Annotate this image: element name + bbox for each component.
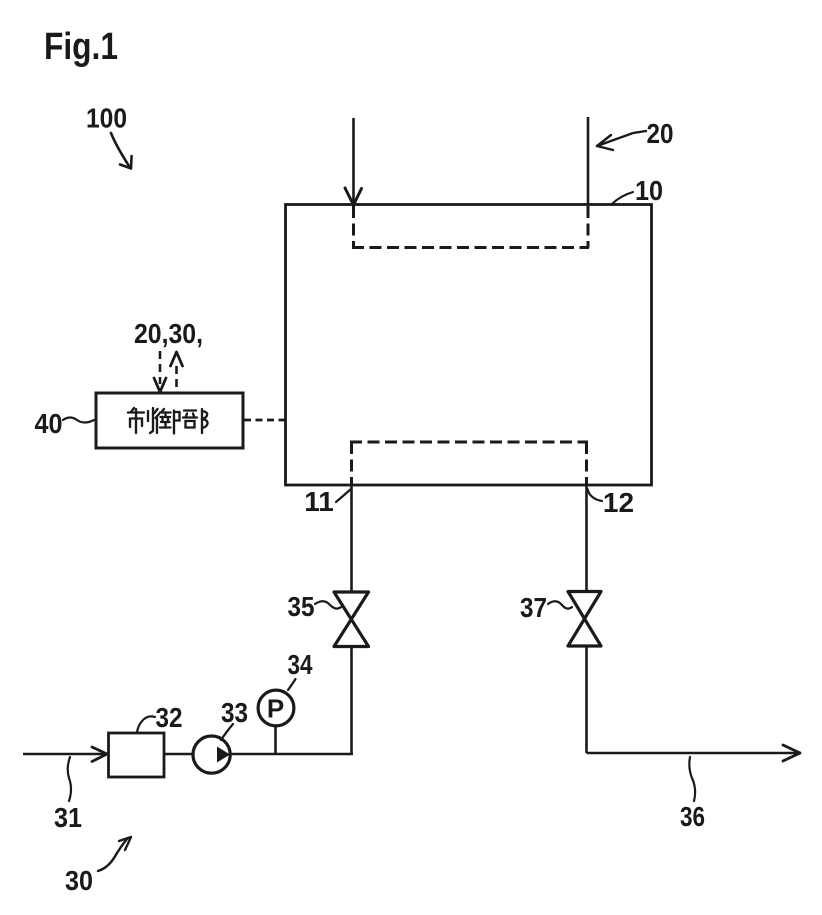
left riser pipe below valve bbox=[350, 647, 353, 754]
svg-text:100: 100 bbox=[86, 103, 127, 134]
svg-text:20,30,: 20,30, bbox=[134, 318, 203, 349]
leader for 35 bbox=[315, 601, 341, 608]
svg-text:30: 30 bbox=[65, 865, 93, 896]
pipe 20 top-right bbox=[587, 117, 590, 205]
svg-text:20: 20 bbox=[647, 118, 674, 149]
right downcomer pipe 12 bbox=[585, 485, 588, 592]
left riser pipe 11 bbox=[350, 485, 353, 592]
svg-text:P: P bbox=[267, 694, 284, 724]
leader for 37 bbox=[548, 601, 572, 608]
svg-text:12: 12 bbox=[603, 487, 634, 518]
leader tilde for 40 bbox=[63, 418, 94, 423]
controller text 制御部 (drawn kanji) bbox=[128, 408, 208, 434]
svg-text:33: 33 bbox=[221, 697, 248, 728]
leader for 34 bbox=[288, 679, 296, 690]
inlet line 31 bbox=[23, 753, 106, 756]
leader for 31 bbox=[68, 757, 71, 801]
制 bbox=[128, 408, 153, 433]
svg-text:Fig.1: Fig.1 bbox=[44, 26, 118, 68]
heat exchanger bottom dashed passage bbox=[350, 442, 588, 484]
svg-text:35: 35 bbox=[288, 591, 315, 622]
leader arrow for 100 bbox=[111, 133, 132, 169]
arrowhead into vessel bbox=[345, 188, 362, 205]
controller 40 box bbox=[96, 393, 243, 448]
outlet line 36 bbox=[587, 752, 799, 755]
leader for 12 bbox=[588, 489, 603, 501]
dashed control line from controller to vessel bbox=[244, 419, 285, 422]
pressure gauge 34 bbox=[258, 690, 294, 753]
dashed signal arrow up from controller bbox=[171, 352, 183, 392]
right downcomer below valve bbox=[585, 646, 588, 753]
valve 37 bbox=[568, 592, 601, 647]
leader for 36 bbox=[689, 757, 695, 801]
leader for 32 bbox=[137, 716, 155, 732]
pump 33 bbox=[193, 736, 230, 773]
arrowhead outlet bbox=[783, 745, 800, 761]
部 bbox=[183, 409, 208, 433]
pipe from pump 33 to riser bbox=[231, 753, 353, 756]
svg-text:10: 10 bbox=[635, 175, 663, 206]
svg-text:37: 37 bbox=[520, 592, 547, 623]
leader arrow for 20 bbox=[597, 131, 646, 150]
svg-text:11: 11 bbox=[304, 486, 334, 517]
arrowhead at box 32 bbox=[92, 747, 107, 762]
leader for 10 bbox=[612, 192, 633, 204]
svg-text:31: 31 bbox=[54, 802, 82, 833]
御 bbox=[155, 409, 180, 434]
leader for 33 bbox=[221, 724, 233, 740]
arrow for 30 bbox=[98, 837, 131, 871]
svg-text:40: 40 bbox=[35, 408, 63, 439]
valve 35 bbox=[334, 592, 369, 647]
pipe 20 top-left inlet bbox=[352, 118, 355, 204]
leader for 11 bbox=[336, 489, 351, 502]
svg-text:34: 34 bbox=[288, 649, 313, 680]
dashed signal arrow down to controller bbox=[154, 351, 166, 392]
svg-text:32: 32 bbox=[156, 702, 183, 733]
heat exchanger top dashed passage bbox=[352, 206, 589, 248]
svg-text:36: 36 bbox=[680, 801, 705, 832]
pipe from box 32 to pump 33 bbox=[165, 753, 192, 756]
vessel 10 bbox=[286, 205, 652, 486]
filter box 32 bbox=[109, 733, 165, 777]
